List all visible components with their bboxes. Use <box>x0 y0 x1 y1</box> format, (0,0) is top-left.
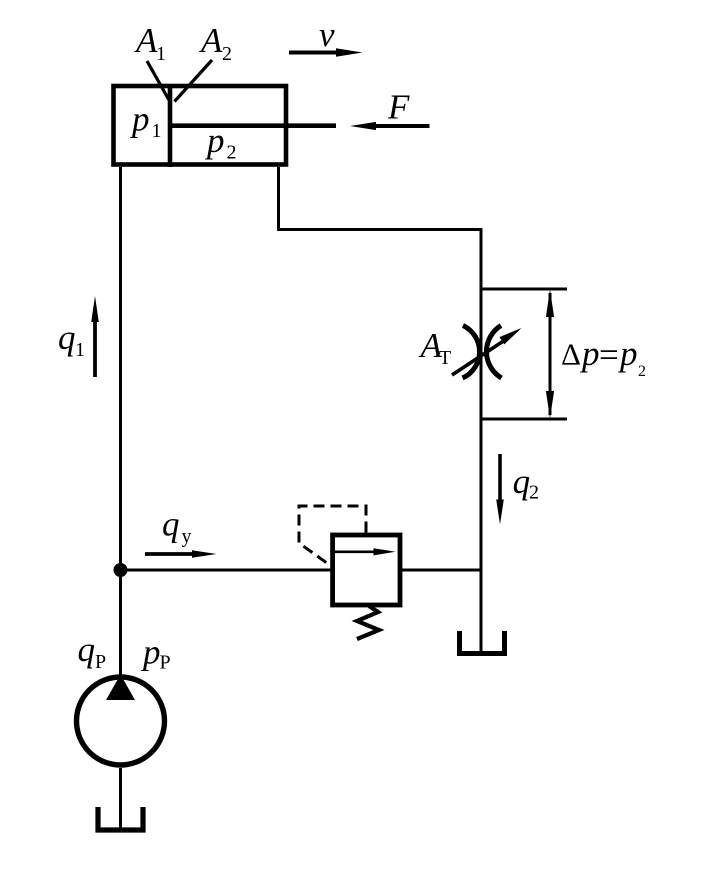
svg-text:2: 2 <box>222 43 232 65</box>
svg-text:q: q <box>162 505 180 544</box>
svg-text:q: q <box>58 318 76 357</box>
svg-text:2: 2 <box>529 482 539 504</box>
svg-text:1: 1 <box>156 43 166 65</box>
svg-text:=: = <box>599 335 619 374</box>
svg-text:T: T <box>439 347 451 369</box>
svg-text:F: F <box>387 88 410 127</box>
svg-text:2: 2 <box>638 363 646 380</box>
svg-text:p: p <box>140 633 161 672</box>
svg-text:A: A <box>199 21 223 60</box>
svg-text:q: q <box>78 630 96 669</box>
svg-text:1: 1 <box>152 120 162 142</box>
svg-text:P: P <box>160 652 171 674</box>
svg-text:q: q <box>513 462 531 501</box>
svg-text:A: A <box>134 21 158 60</box>
svg-text:p: p <box>204 121 225 160</box>
svg-text:p: p <box>617 334 638 373</box>
svg-text:p: p <box>579 334 600 373</box>
svg-text:P: P <box>95 651 106 673</box>
svg-text:p: p <box>129 100 150 139</box>
svg-text:1: 1 <box>75 339 85 361</box>
svg-text:y: y <box>182 526 192 548</box>
svg-text:Δ: Δ <box>561 337 581 372</box>
svg-text:2: 2 <box>227 142 237 164</box>
svg-text:v: v <box>319 15 335 54</box>
